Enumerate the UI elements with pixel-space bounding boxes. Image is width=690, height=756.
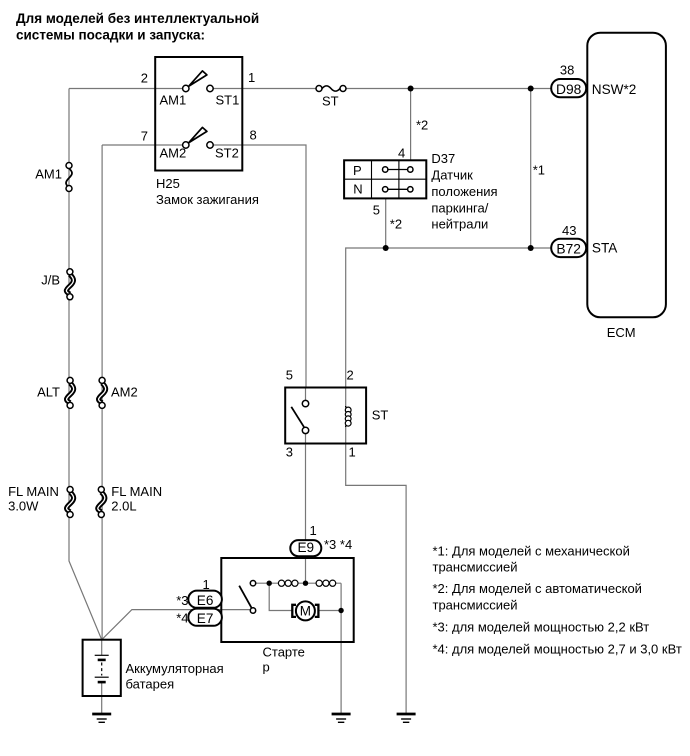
svg-text:H25: H25 (156, 176, 180, 191)
svg-text:*2: *2 (390, 217, 402, 232)
svg-text:B72: B72 (556, 242, 581, 257)
svg-text:Старте: Старте (263, 645, 305, 660)
svg-text:ALT: ALT (37, 385, 60, 400)
svg-text:*3: для моделей мощностью 2,2: *3: для моделей мощностью 2,2 кВт (433, 620, 650, 635)
svg-text:ST2: ST2 (215, 146, 239, 161)
svg-text:AM2: AM2 (160, 146, 187, 161)
svg-text:1: 1 (203, 577, 210, 592)
svg-text:1: 1 (310, 523, 317, 538)
svg-text:P: P (353, 163, 362, 178)
svg-text:STA: STA (592, 241, 618, 256)
svg-text:*4: для моделей мощностью 2,7: *4: для моделей мощностью 2,7 и 3,0 кВт (433, 642, 682, 657)
svg-text:батарея: батарея (126, 676, 175, 691)
svg-text:FL MAIN: FL MAIN (111, 484, 162, 499)
svg-text:*2: Для моделей с автоматическ: *2: Для моделей с автоматической (433, 581, 642, 596)
svg-text:5: 5 (286, 368, 293, 383)
svg-text:*3: *3 (176, 593, 188, 608)
svg-text:*1: Для моделей с механической: *1: Для моделей с механической (433, 543, 630, 558)
svg-text:3: 3 (286, 445, 293, 460)
svg-text:ST1: ST1 (216, 93, 240, 108)
svg-text:паркинга/: паркинга/ (431, 200, 488, 215)
svg-text:AM2: AM2 (111, 385, 138, 400)
svg-text:N: N (353, 181, 362, 196)
svg-text:FL MAIN: FL MAIN (8, 484, 59, 499)
svg-text:J/B: J/B (41, 273, 60, 288)
svg-text:трансмиссией: трансмиссией (433, 597, 518, 612)
svg-text:4: 4 (398, 145, 405, 160)
svg-text:2: 2 (141, 71, 148, 86)
svg-text:38: 38 (560, 63, 574, 78)
svg-text:2: 2 (347, 368, 354, 383)
svg-text:7: 7 (141, 129, 148, 144)
svg-text:Аккумуляторная: Аккумуляторная (126, 661, 224, 676)
svg-text:Для моделей без интеллектуальн: Для моделей без интеллектуальной (16, 11, 259, 26)
svg-text:2.0L: 2.0L (111, 499, 136, 514)
svg-text:Датчик: Датчик (431, 167, 473, 182)
svg-text:NSW*2: NSW*2 (592, 82, 637, 97)
svg-text:M: M (300, 604, 311, 619)
svg-text:положения: положения (431, 184, 497, 199)
svg-text:*4: *4 (176, 610, 188, 625)
svg-text:*1: *1 (533, 162, 545, 177)
svg-text:нейтрали: нейтрали (431, 217, 488, 232)
svg-text:ECM: ECM (607, 325, 636, 340)
svg-text:*2: *2 (416, 117, 428, 132)
svg-text:8: 8 (250, 128, 257, 143)
svg-text:ST: ST (322, 94, 339, 109)
svg-text:3.0W: 3.0W (8, 499, 39, 514)
svg-text:5: 5 (373, 203, 380, 218)
svg-text:1: 1 (248, 70, 255, 85)
svg-text:E9: E9 (297, 540, 314, 555)
svg-text:*3 *4: *3 *4 (324, 537, 352, 552)
svg-text:D37: D37 (431, 151, 455, 166)
svg-text:ST: ST (372, 408, 389, 423)
svg-text:AM1: AM1 (35, 166, 62, 181)
svg-text:E7: E7 (197, 611, 214, 626)
svg-text:системы посадки и запуска:: системы посадки и запуска: (16, 28, 205, 43)
svg-text:AM1: AM1 (160, 93, 187, 108)
svg-text:Замок зажигания: Замок зажигания (156, 192, 259, 207)
svg-text:43: 43 (562, 223, 576, 238)
svg-text:1: 1 (349, 445, 356, 460)
svg-text:E6: E6 (197, 593, 214, 608)
svg-text:трансмиссией: трансмиссией (433, 560, 518, 575)
svg-text:р: р (263, 660, 270, 675)
svg-text:D98: D98 (556, 82, 582, 97)
